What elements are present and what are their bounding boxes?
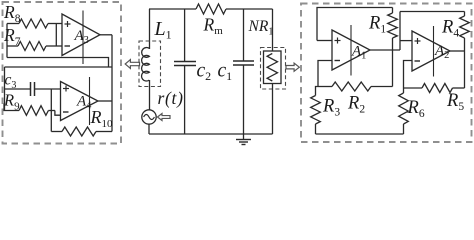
svg-text:c1: c1 xyxy=(218,61,233,84)
svg-text:L1: L1 xyxy=(154,18,172,42)
wire: vertical connector at R8/R7 right ends xyxy=(55,24,57,47)
wire: lower left rail xyxy=(4,67,6,111)
ground xyxy=(236,134,251,145)
svg-text:c2: c2 xyxy=(197,61,212,84)
wire: A2 output down to R5 xyxy=(464,51,466,88)
svg-text:R3: R3 xyxy=(322,97,340,119)
svg-text:R6: R6 xyxy=(407,98,425,120)
wire: A1 inverting input to R2/R3 junction xyxy=(318,61,332,87)
wire: bottom wire connecting R3 and R6 xyxy=(316,133,404,135)
resistor R5 xyxy=(404,84,465,114)
svg-text:A3: A3 xyxy=(74,28,89,46)
wire: R1/R2 vertical at A1 output xyxy=(392,50,394,87)
op-amp A4 xyxy=(61,77,99,125)
op-amp A3 xyxy=(62,11,100,65)
svg-text:R1: R1 xyxy=(368,14,386,36)
resistor Rm xyxy=(196,4,226,37)
resistor R9 xyxy=(3,91,55,116)
wire: left input rail joining R8/R7 and lower wire xyxy=(6,24,8,58)
wire: bottom wire of main circuit xyxy=(149,133,273,135)
svg-text:R5: R5 xyxy=(446,91,464,113)
wire: A1 output up to top wire 2 / A2 plus xyxy=(399,12,401,51)
capacitor C2 xyxy=(174,9,211,134)
svg-text:R7: R7 xyxy=(3,25,21,48)
wire: C3/R9/R10 junction vertical xyxy=(50,89,52,132)
arrow from NR1 to right sub-circuit xyxy=(286,63,299,71)
svg-text:R8: R8 xyxy=(3,2,21,25)
inductor L1 with dashed highlight box xyxy=(139,9,172,110)
arrow pointing at r(t) xyxy=(158,114,171,121)
resistor R7 xyxy=(3,25,62,51)
wire: long horizontal wire 2 xyxy=(5,66,113,68)
resistor R10 xyxy=(51,107,113,136)
capacitor C1 xyxy=(218,9,255,134)
svg-text:c3: c3 xyxy=(5,72,17,92)
arrow from L1 to left sub-circuit xyxy=(125,60,139,69)
resistor R4 xyxy=(441,12,469,52)
wire: A3 output to right vertical xyxy=(100,34,112,36)
svg-text:R4: R4 xyxy=(441,18,459,40)
nonlinear resistor NR1 xyxy=(248,9,286,134)
right dashed sub-circuit box xyxy=(301,4,472,143)
op-amp A2 xyxy=(412,26,450,77)
svg-text:Rm: Rm xyxy=(203,15,224,38)
wire: A4 output xyxy=(98,100,112,102)
svg-text:R9: R9 xyxy=(3,91,20,113)
svg-text:A2: A2 xyxy=(434,43,449,61)
wire: right vertical bus (A3 out / A4 out / R10) xyxy=(111,35,113,132)
wire: top wire to R1 / A1 plus input xyxy=(317,8,393,41)
op-amp A1 xyxy=(332,25,370,76)
wire: A1 output xyxy=(370,49,400,51)
wire: A2 output xyxy=(450,50,465,52)
svg-text:NR1: NR1 xyxy=(248,18,274,38)
resistor R1 xyxy=(368,8,397,51)
resistor R2 xyxy=(318,82,393,116)
resistor R8 xyxy=(3,2,62,28)
source r(t) xyxy=(142,88,184,134)
left dashed sub-circuit box xyxy=(3,2,122,144)
wire: A2 inverting input down to R5/R6 junction xyxy=(404,61,413,89)
svg-text:R2: R2 xyxy=(347,94,365,116)
svg-text:r(t): r(t) xyxy=(158,88,184,108)
svg-text:R10: R10 xyxy=(90,107,114,130)
capacitor C3 xyxy=(5,72,62,97)
wire: long horizontal wire 1 xyxy=(7,58,109,68)
wire: top wire of main circuit xyxy=(149,8,196,10)
wire: junction to A4 inverting input stub xyxy=(55,111,61,116)
resistor R6 xyxy=(399,88,425,134)
resistor R3 xyxy=(311,87,341,135)
